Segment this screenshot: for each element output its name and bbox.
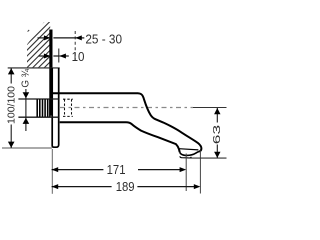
centerline dash-dot [60,107,193,109]
arrow down at pipe top (G3/4) [23,92,30,98]
dim 63 top extension (centerline level) [193,107,227,109]
svg-text:25 - 30: 25 - 30 [85,32,122,47]
arrow up at centerline (63) [214,108,220,114]
arrow down at plate bottom (100/100) [8,142,15,148]
dim 25-30 line [38,37,85,39]
svg-text:10: 10 [72,49,85,64]
hidden connector dashed box [63,99,73,116]
arrow down at outlet bottom (63) [214,152,220,158]
arrow left-pointing at plate front (10) [59,54,66,59]
spout mouth joint line [179,149,198,150]
svg-text:63: 63 [212,124,223,144]
spout mouth outer cup [180,152,199,156]
plate top line / hatch bottom / 100-100 top extension [8,67,60,69]
arrow right at outlet (171) [180,167,187,172]
hatch stub dot [28,30,30,32]
dim 10 extension line [58,49,60,63]
aerator band below mouth [180,156,192,158]
arrow right-pointing at wall (10) [44,54,51,59]
dim 189 line [52,186,195,188]
svg-text:100/100: 100/100 [7,86,18,124]
dim 100/100 vertical line lower [10,125,12,149]
spout body bottom profile [60,122,180,152]
dim 100/100 bottom extension line [2,147,52,149]
svg-text:171: 171 [107,162,126,177]
svg-text:G ¾: G ¾ [20,68,31,87]
pipe stub bottom edge [18,116,58,118]
wall face extension below plate [51,149,53,194]
dim 10 line [39,55,69,57]
arrow left-pointing at pipe end ext (25-30) [75,35,82,40]
dim 63 vertical line lower [216,145,218,158]
pipe thread stripes [37,99,50,116]
outlet center extension line [185,154,187,192]
dim 171 line [52,169,180,171]
wall hatch section [0,18,100,88]
wall face thick line [49,30,52,116]
dim 63 bottom extension [189,157,227,159]
escutcheon plate (side view) [52,68,59,147]
dim 100/100 vertical line upper [10,68,12,84]
G3/4 leader line [25,89,27,131]
dim 25-30 extension dashed line [74,31,76,61]
pipe stub top edge [18,98,58,100]
arrow left at wall (189) [52,184,59,189]
arrow left at wall (171) [52,167,59,172]
svg-text:189: 189 [116,179,135,194]
arrow right at tip (189) [194,184,201,189]
arrow up at plate top (100/100) [8,68,15,74]
dim 63 vertical line upper [216,108,218,123]
arrow right-pointing at wall (25-30) [44,35,51,40]
spout body top profile [53,93,202,151]
arrow up at pipe bottom (G3/4) [23,118,30,124]
spout tip extension line [199,151,201,194]
